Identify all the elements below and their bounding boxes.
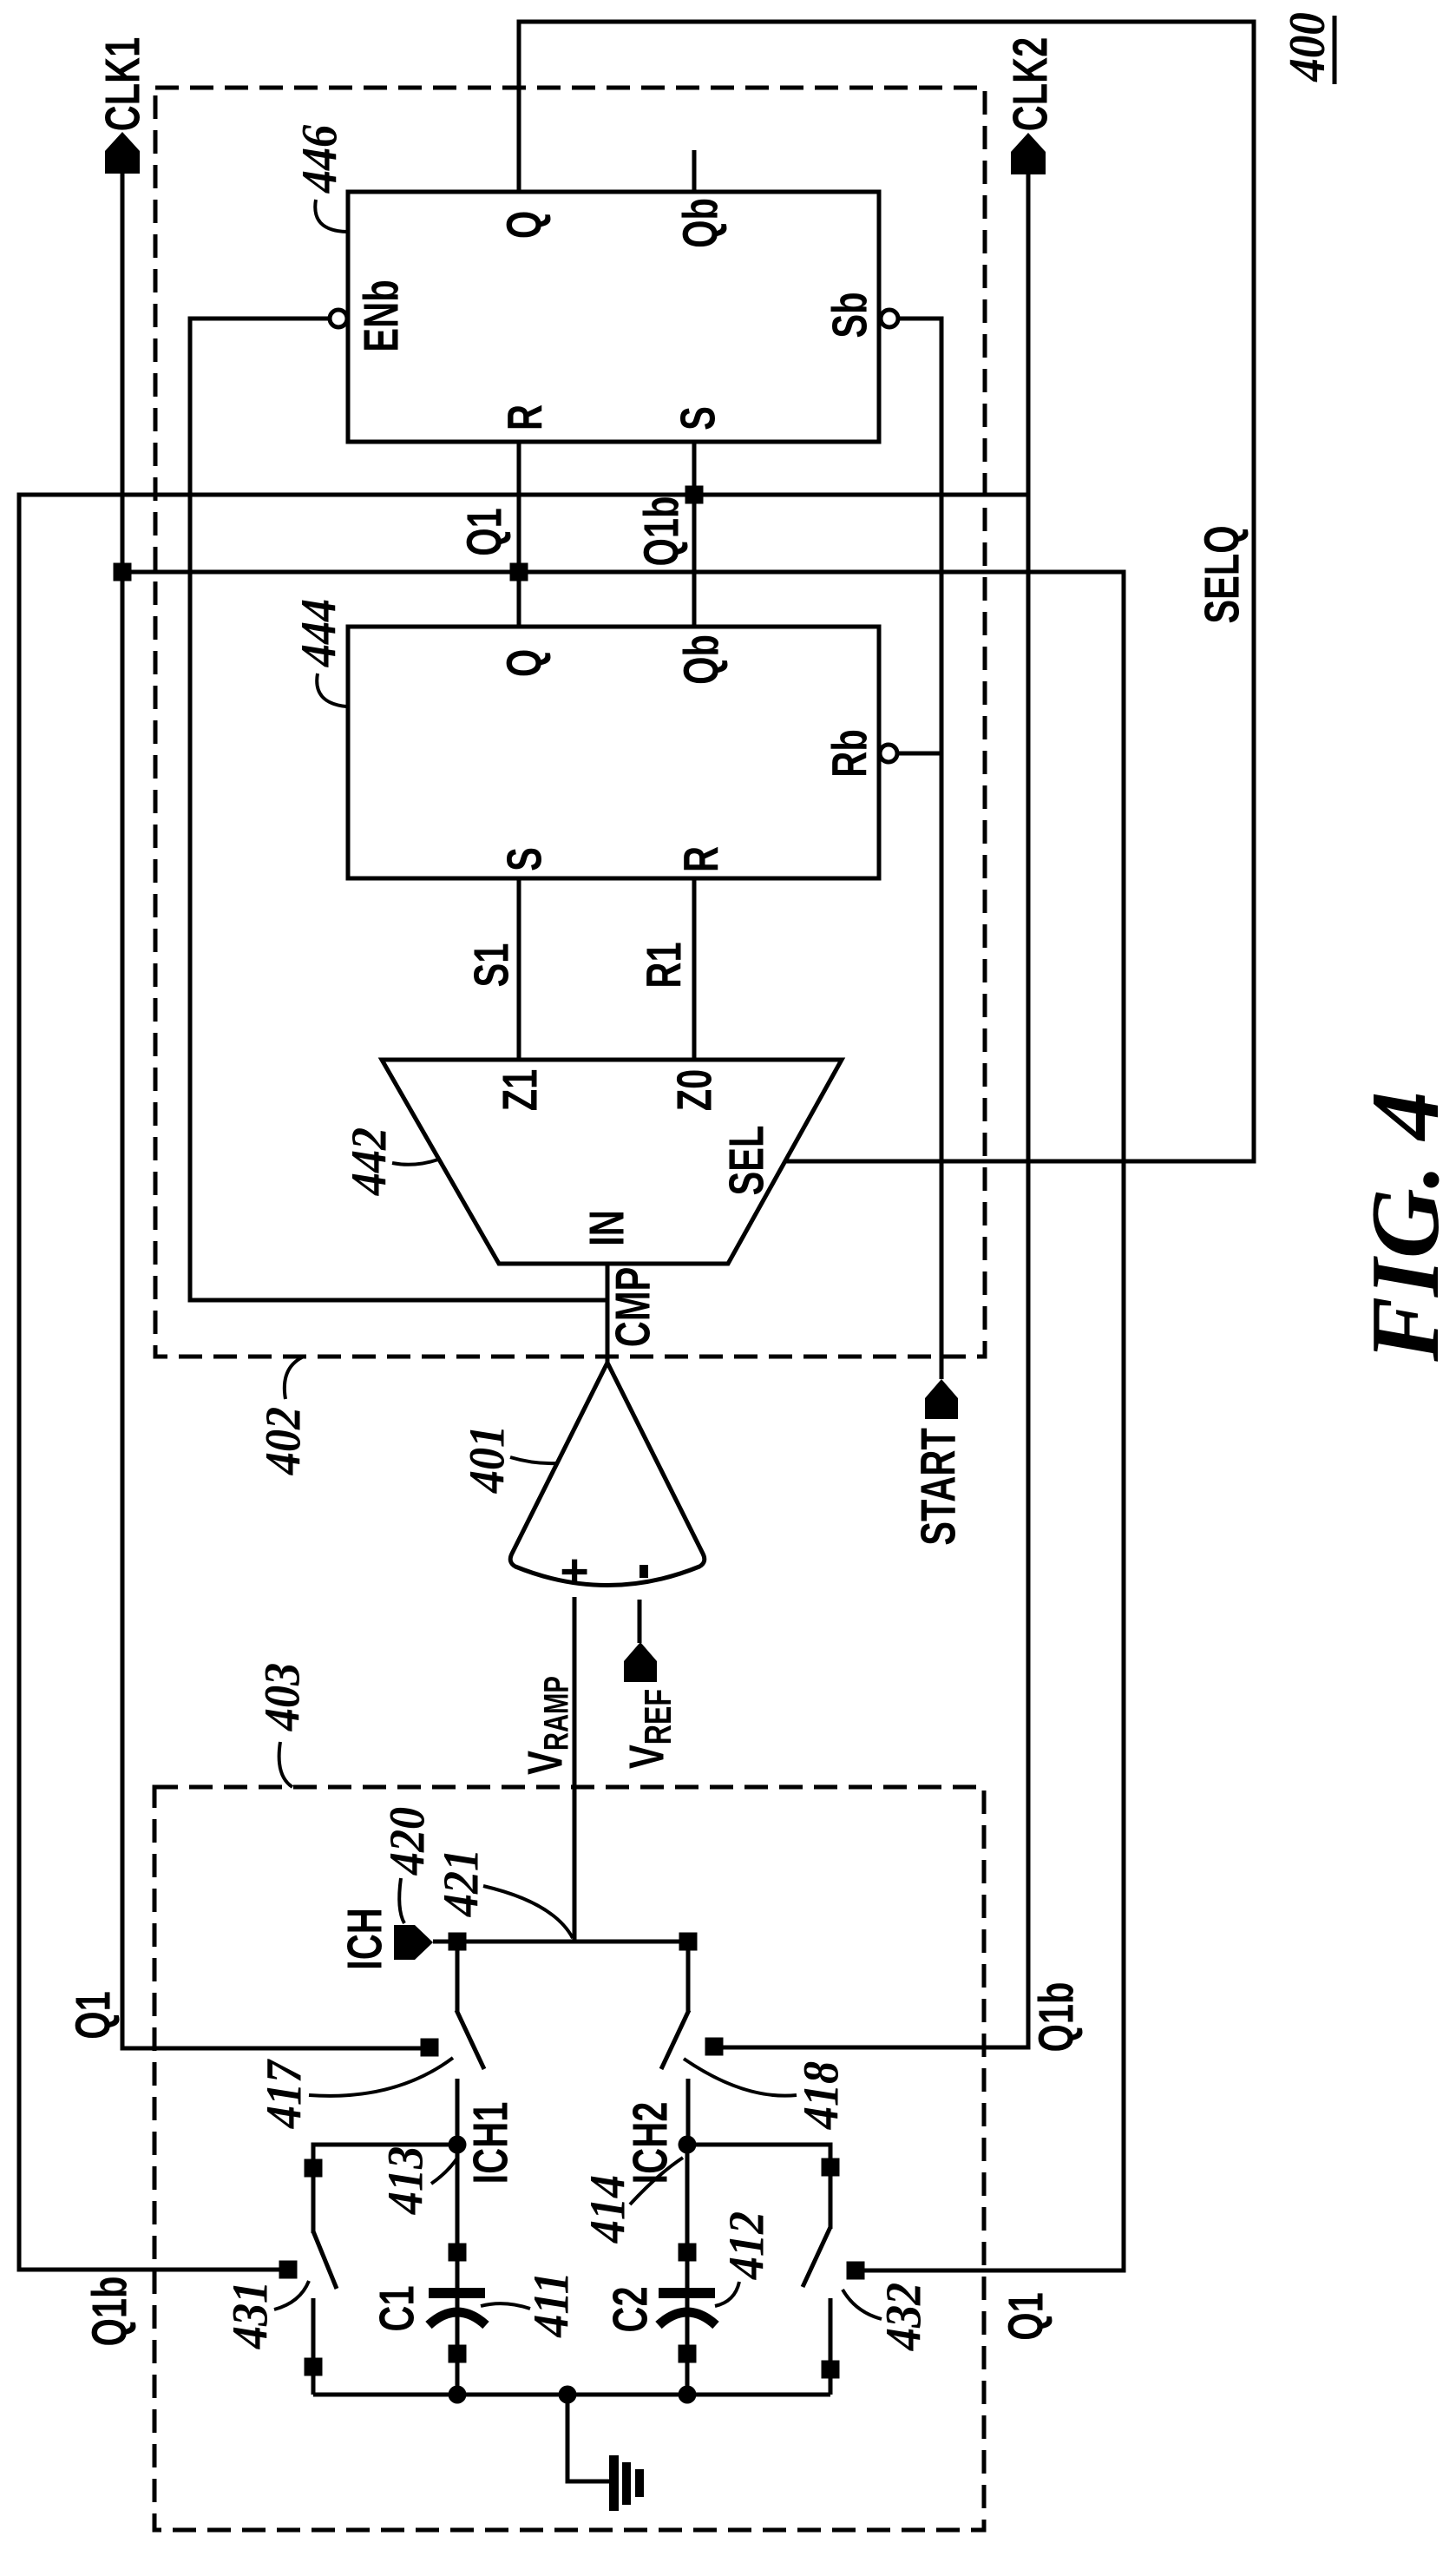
svg-text:Rb: Rb	[822, 729, 877, 777]
wire comparator - input to VREF	[638, 1600, 642, 1643]
leader 402	[285, 1357, 302, 1399]
svg-text:411: 411	[523, 2271, 579, 2337]
svg-text:420: 420	[379, 1807, 435, 1876]
ground stem	[567, 2395, 609, 2481]
svg-text:IN: IN	[579, 1210, 634, 1246]
terminal CLK1 arrow	[105, 132, 140, 174]
svg-text:R: R	[497, 404, 553, 430]
svg-text:R1: R1	[636, 942, 692, 988]
switch 432 blade	[803, 2227, 830, 2287]
switch 432 lower wire	[829, 2298, 833, 2395]
svg-text:ICH1: ICH1	[462, 2102, 518, 2185]
flip-flop 446	[348, 192, 879, 442]
wire IN/CMP	[606, 1264, 610, 1363]
svg-text:Q1b: Q1b	[1028, 1982, 1084, 2053]
switch 417 control square	[421, 2039, 439, 2057]
terminal START arrow	[925, 1379, 958, 1419]
svg-text:S: S	[496, 847, 552, 871]
junction square Q1/R-pin	[510, 563, 528, 582]
svg-text:SEL: SEL	[718, 1126, 774, 1196]
junction square ICH node right	[679, 1933, 698, 1951]
leader 411	[481, 2303, 530, 2309]
switch 418 lower wire	[686, 2079, 691, 2145]
svg-text:ICH: ICH	[337, 1908, 392, 1970]
wire Q(446) to top rail, SELQ rail, SEL pin	[519, 22, 1254, 1161]
junction dot ground tee	[559, 2386, 577, 2404]
capacitor C1 curved plate	[429, 2312, 486, 2325]
svg-text:C1: C1	[369, 2285, 424, 2331]
wire ENb feedback from CMP node	[190, 319, 607, 1300]
wire R(446) to Q(444)	[517, 442, 521, 627]
svg-text:S: S	[670, 406, 725, 430]
svg-text:446: 446	[292, 124, 347, 194]
switch 431 bottom square	[305, 2358, 323, 2376]
junction square Q1b/S-pin	[685, 486, 704, 504]
svg-text:CLK1: CLK1	[95, 37, 150, 132]
dashed box 402 (control logic)	[155, 88, 985, 1357]
wire VRAMP from comparator + input	[573, 1597, 577, 1942]
terminal ICH arrow	[394, 1925, 433, 1960]
wire Q1 horizontal and right vertical to switch 432 control	[122, 572, 1124, 2270]
mux 442	[382, 1060, 842, 1264]
svg-text:S1: S1	[463, 943, 519, 988]
leader 414	[630, 2158, 683, 2204]
switch 417 lower wire	[456, 2079, 460, 2145]
svg-text:431: 431	[222, 2281, 278, 2349]
switch 431 upper path	[313, 2145, 457, 2233]
svg-text:+: +	[547, 1557, 602, 1586]
leader 413	[431, 2157, 458, 2184]
ground bar 2	[622, 2462, 631, 2505]
junction square ICH node left	[449, 1933, 467, 1951]
svg-text:CLK2: CLK2	[1002, 37, 1058, 132]
switch 432 upper path	[687, 2145, 830, 2229]
svg-text:Z1: Z1	[492, 1069, 548, 1112]
svg-text:Q1b: Q1b	[633, 496, 689, 567]
svg-text:401: 401	[459, 1425, 515, 1494]
switch 418 control square	[705, 2038, 724, 2056]
svg-text:Q: Q	[496, 649, 552, 677]
Rb bubble (444)	[880, 745, 897, 762]
svg-text:Sb: Sb	[822, 292, 877, 338]
node ICH2 dot	[679, 2136, 697, 2154]
svg-text:Q1: Q1	[456, 508, 512, 556]
ground bar 3	[635, 2469, 644, 2497]
svg-text:R: R	[673, 846, 729, 872]
capacitor C1 wire	[456, 2145, 460, 2395]
comparator 401	[510, 1363, 705, 1586]
svg-text:Q: Q	[496, 211, 552, 239]
terminal CLK2 arrow	[1011, 133, 1046, 174]
leader 444	[317, 673, 346, 706]
terminal VREF arrow	[624, 1642, 657, 1682]
switch 432 top square	[822, 2158, 840, 2177]
Sb bubble (446)	[881, 310, 898, 327]
capacitor C2 curved plate	[659, 2312, 716, 2325]
wire Q1b horizontal and left vertical to switch 431 control	[19, 495, 1028, 2270]
svg-text:ICH2: ICH2	[622, 2102, 678, 2185]
svg-text:417: 417	[256, 2059, 312, 2130]
minus input label	[639, 1565, 648, 1578]
svg-text:C2: C2	[602, 2286, 658, 2332]
node ICH1 dot	[449, 2136, 467, 2154]
leader 418	[684, 2059, 797, 2096]
capacitor C1 flat plate	[429, 2288, 485, 2298]
underline of 400	[1333, 16, 1337, 84]
leader 403	[279, 1742, 292, 1787]
switch 418 upper wire	[686, 1942, 691, 2012]
capacitor C2 wire	[685, 2145, 690, 2395]
bottom node wire	[313, 2393, 830, 2397]
svg-text:Q1b: Q1b	[82, 2277, 137, 2347]
wire R(444) to Z0, net R1	[692, 878, 697, 1060]
wire Sb/Rb to START	[898, 319, 941, 1379]
dashed box 403 (ramp generator)	[154, 1787, 984, 2530]
capacitor C2 top square	[679, 2244, 697, 2262]
switch 418 blade	[661, 2010, 689, 2069]
svg-text:412: 412	[718, 2211, 774, 2280]
svg-text:403: 403	[254, 1663, 310, 1731]
switch 417 blade	[456, 2010, 484, 2069]
svg-text:Qb: Qb	[672, 198, 728, 248]
junction dot C2 bottom	[679, 2386, 697, 2404]
switch 432 control square	[847, 2262, 865, 2280]
switch 417 upper wire	[456, 1942, 460, 2012]
leader 431	[274, 2281, 309, 2310]
svg-text:START: START	[910, 1428, 966, 1546]
capacitor C2 flat plate	[659, 2288, 715, 2298]
switch 431 lower wire	[312, 2298, 316, 2395]
Qb stub (446)	[692, 150, 697, 192]
wire S(444) to Z1, net S1	[517, 878, 521, 1060]
wire CLK2/Q1b vertical down to switch 418 control	[718, 174, 1028, 2047]
leader 446	[315, 200, 347, 232]
switch 432 bottom square	[822, 2361, 840, 2379]
svg-text:444: 444	[291, 599, 346, 667]
junction dot C1 bottom	[449, 2386, 467, 2404]
svg-text:402: 402	[255, 1407, 311, 1475]
ground bar 1	[609, 2455, 619, 2511]
svg-text:CMP: CMP	[605, 1267, 660, 1347]
leader 420	[399, 1878, 404, 1923]
svg-text:442: 442	[341, 1127, 397, 1196]
ENb bubble (446)	[330, 310, 347, 327]
wire Rb to START line	[897, 752, 941, 756]
leader 417	[309, 2058, 453, 2096]
svg-text:413: 413	[377, 2146, 433, 2215]
svg-text:Q1: Q1	[65, 1991, 121, 2040]
wire S(446) to Qb(444)	[692, 442, 697, 627]
capacitor C1 bottom square	[449, 2345, 467, 2363]
svg-text:418: 418	[793, 2061, 849, 2130]
wire CLK1/Q1 vertical down to switch 417 control	[122, 174, 425, 2048]
svg-text:432: 432	[876, 2283, 931, 2351]
switch 431 blade	[313, 2231, 337, 2289]
leader 442	[392, 1160, 438, 1165]
capacitor C2 bottom square	[679, 2345, 697, 2363]
svg-text:SELQ: SELQ	[1194, 525, 1249, 623]
leader 401	[510, 1457, 556, 1463]
junction square Q1/CLK1	[114, 563, 132, 582]
leader 412	[715, 2282, 739, 2306]
svg-text:Z0: Z0	[666, 1069, 722, 1112]
svg-text:ENb: ENb	[353, 279, 409, 352]
wire ICH node 421	[433, 1940, 688, 1944]
svg-text:FIG. 4: FIG. 4	[1352, 1091, 1456, 1362]
flip-flop 444	[348, 627, 879, 878]
svg-text:421: 421	[433, 1849, 489, 1917]
svg-text:400: 400	[1279, 12, 1335, 82]
leader 421	[483, 1886, 573, 1938]
leader 432	[843, 2290, 882, 2319]
svg-text:Qb: Qb	[673, 634, 729, 685]
svg-text:Q1: Q1	[998, 2292, 1053, 2341]
svg-text:414: 414	[580, 2175, 635, 2244]
switch 431 control square	[279, 2261, 298, 2279]
switch 431 top square	[305, 2159, 323, 2178]
capacitor C1 top square	[449, 2244, 467, 2262]
